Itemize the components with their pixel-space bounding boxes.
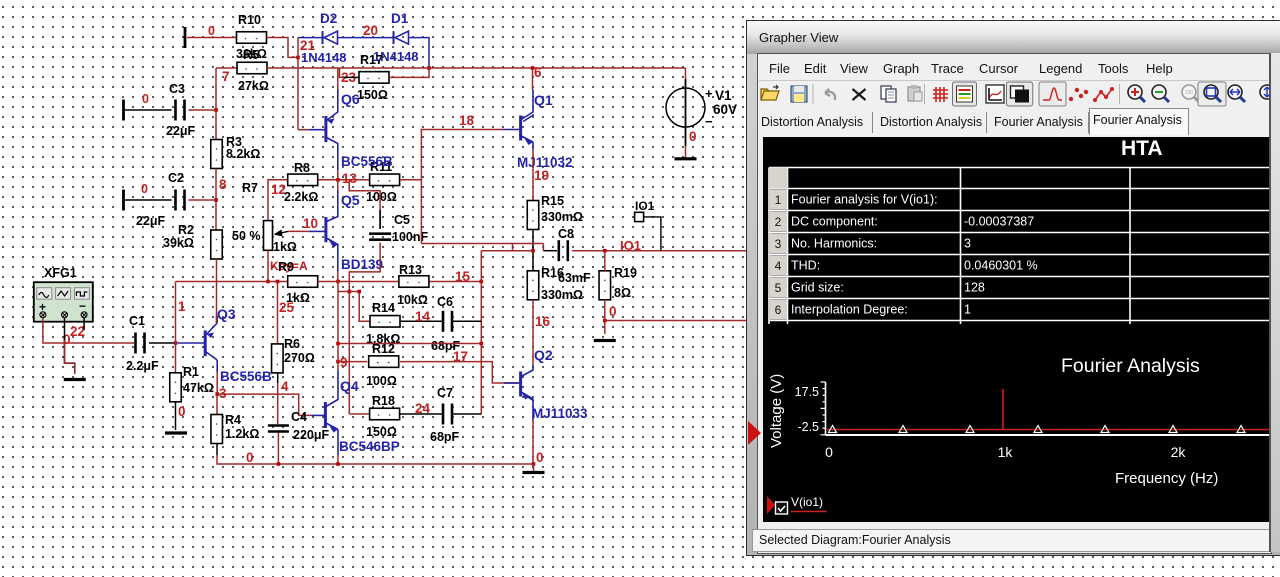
results table and chart [763,137,1269,522]
wire to R18 [349,413,369,415]
svg-text:22μF: 22μF [136,214,166,228]
svg-text:1: 1 [775,193,782,207]
resistor R8 [288,174,318,186]
node R6 top junction [276,280,280,284]
svg-text:270Ω: 270Ω [284,351,315,365]
svg-text:24: 24 [415,401,431,416]
svg-text:R10: R10 [238,13,261,27]
wire C2 left lead [125,199,172,201]
wire net 18 [400,130,503,180]
wire Q4 emitter to 0 [337,455,339,464]
svg-text:XFG1: XFG1 [44,266,77,280]
transistor Q5 [309,190,338,272]
svg-text:0: 0 [178,404,186,419]
svg-text:330mΩ: 330mΩ [541,210,583,224]
terminal C3 input [122,100,125,121]
svg-text:R4: R4 [225,413,241,427]
svg-text:C8: C8 [558,227,574,241]
wire vertical net col [337,282,339,362]
wire D1 to rail [409,38,429,68]
svg-text:7: 7 [222,69,230,84]
svg-text:R15: R15 [541,194,564,208]
wire net0 to window edge [605,320,746,322]
svg-text:1N4148: 1N4148 [301,50,347,65]
svg-text:IO1: IO1 [620,238,641,253]
svg-text:19: 19 [534,168,549,183]
node net 9 junction [336,360,340,364]
svg-text:R18: R18 [372,394,395,408]
node Q1 collector junction [531,66,535,70]
svg-text:C4: C4 [291,410,307,424]
wire R14 to C6 [400,320,442,322]
wire junction to R1 [175,343,177,373]
wire input to R10 [187,37,237,39]
node R19 top junction [603,249,607,253]
wire R10 to net21 [267,38,299,58]
transistor Q6 [309,89,338,171]
svg-text:THD:: THD: [791,259,820,273]
resistor R3 [211,140,223,169]
svg-text:3: 3 [964,237,971,251]
wire net io1 left [481,250,533,252]
wire C8 to window edge [572,250,746,252]
svg-text:0: 0 [246,450,254,465]
wire C5 bottom to R18 row [349,243,380,415]
svg-text:R9: R9 [278,260,294,274]
svg-text:25: 25 [279,300,295,315]
svg-text:1k: 1k [998,444,1014,460]
wire net1 to R6 [277,282,279,345]
wire net9 to Q4 collector [337,362,339,370]
wire R2 to Q3 emitter [216,316,218,323]
svg-text:150Ω: 150Ω [357,88,388,102]
wire V1 to ground [685,146,687,158]
svg-text:1kΩ: 1kΩ [273,240,297,254]
svg-text:22: 22 [70,324,85,339]
svg-text:Q5: Q5 [341,192,360,208]
wire D2 to D1 [338,37,394,39]
svg-text:BD139: BD139 [341,257,383,272]
svg-text:-2.5: -2.5 [797,420,819,434]
svg-text:Q2: Q2 [534,347,553,363]
svg-text:V(io1): V(io1) [791,495,823,509]
wire to R14 [338,292,370,322]
status bar [752,529,1280,552]
wire net 21 vertical [297,38,299,130]
wire R15 to R16 lead [532,230,534,272]
capacitor C3 [176,100,185,121]
wire R19 to ground [604,300,606,334]
resistor R4 [211,415,223,444]
wire R6-C4 red part [277,383,279,424]
svg-text:39kΩ: 39kΩ [163,236,194,250]
wire rail to Q1 collector [532,68,534,90]
svg-text:−: − [705,114,713,129]
svg-text:8.2kΩ: 8.2kΩ [226,147,260,161]
svg-text:R2: R2 [178,223,194,237]
node C5-R14 junction [348,290,352,294]
capacitor C4 [268,426,289,432]
node C3 junction [214,108,218,112]
node Q5 emitter junction [336,280,340,284]
wire jog right [542,244,544,251]
svg-text:18: 18 [459,113,475,128]
wire net3 to R4 [216,394,218,414]
svg-text:6: 6 [534,65,542,80]
svg-text:C5: C5 [394,213,410,227]
svg-text:3: 3 [775,237,782,251]
svg-text:−: − [79,299,86,313]
svg-text:BC556B: BC556B [341,154,393,169]
node col junction 17 [336,342,340,346]
wire Q5 emitter to net1 [337,272,339,282]
resistor R9 [288,276,318,288]
transistor Q3 [178,316,218,372]
svg-text:R14: R14 [372,301,395,315]
wire net21 to Q6 base [298,129,310,131]
svg-text:+: + [705,86,713,101]
wire to ground bottom [533,464,535,471]
svg-text:Interpolation Degree:: Interpolation Degree: [791,303,908,317]
svg-text:Q3: Q3 [217,306,236,322]
wire R18 to C7 [400,413,442,415]
svg-text:10: 10 [303,216,318,231]
transistor Q1 [503,90,534,150]
svg-text:Q6: Q6 [341,91,360,107]
active trace pointer [747,419,763,447]
resistor R13 [399,276,429,288]
svg-text:10kΩ: 10kΩ [397,293,428,307]
wire C3 left lead [125,109,172,111]
svg-text:R5: R5 [243,48,259,62]
capacitor C2 [176,190,185,211]
transistor Q2 [504,365,534,420]
voltage source V1 [666,79,713,146]
wire wiper to Q5 base [288,230,309,232]
svg-text:R17: R17 [360,53,383,67]
function generator XFG1 [34,282,93,322]
svg-text:22μF: 22μF [166,124,196,138]
wire rail net 6 [216,67,237,69]
svg-text:0: 0 [689,129,697,144]
svg-text:R12: R12 [372,342,395,356]
node Q4 emitter junction [336,462,340,466]
ground V1 [675,157,697,160]
capacitor C5 [369,234,391,240]
node 21 junction [296,56,300,60]
svg-text:27kΩ: 27kΩ [238,79,269,93]
diode D2 [323,31,338,44]
wire rail to R17 [340,68,345,77]
menu bar [769,61,790,76]
svg-text:68pF: 68pF [430,430,460,444]
svg-text:100Ω: 100Ω [366,374,397,388]
capacitor C8 [559,240,568,261]
svg-text:8: 8 [219,177,227,192]
wire rail to Q6 emitter [337,68,339,89]
svg-text:Grid size:: Grid size: [791,281,844,295]
ground bottom [523,471,545,474]
svg-text:MJ11033: MJ11033 [532,406,588,421]
wire R12 to Q2 base [400,362,519,383]
transistor Q4 [312,370,338,455]
svg-text:60V: 60V [713,102,737,117]
svg-text:0: 0 [141,182,148,196]
svg-text:5: 5 [775,281,782,295]
svg-text:C6: C6 [437,295,453,309]
svg-text:IO1: IO1 [635,199,655,213]
wire C2 to net7 [189,199,217,201]
wire R17 to rail [389,68,429,77]
resistor R16 [527,271,539,300]
wire R2 to Q3 [216,259,218,323]
svg-text:No. Harmonics:: No. Harmonics: [791,237,877,251]
svg-text:2: 2 [775,215,782,229]
svg-text:100: 100 [1185,90,1194,96]
node net 15 junction [480,280,484,284]
wire R13 to net15 [430,281,482,283]
resistor R14 [370,316,400,328]
svg-text:C3: C3 [169,82,185,96]
node rail-D1 junction [427,66,431,70]
svg-text:R6: R6 [284,337,300,351]
svg-text:Fourier Analysis: Fourier Analysis [1061,355,1200,377]
connector IO1 [635,212,661,250]
wire pot to net1 row [267,250,269,281]
svg-text:Q4: Q4 [340,378,359,394]
svg-text:0.0460301 %: 0.0460301 % [964,259,1038,273]
resistor R11 [370,174,400,186]
svg-text:220μF: 220μF [293,428,330,442]
tab bar [758,109,1270,135]
node net 13 junction [336,178,340,182]
resistor R10 [237,32,267,44]
node net 3 junction [215,392,219,396]
svg-text:1: 1 [178,299,186,314]
wire C6 right lead [453,320,481,322]
svg-text:C7: C7 [437,386,453,400]
svg-text:16: 16 [535,314,551,329]
wire net 4 to Q4 base [217,394,312,415]
wire Q3 collector to net3 [216,372,218,394]
resistor R1 [170,373,182,402]
wire net15 vertical [480,251,482,414]
resistor R12 [369,356,399,368]
svg-text:R13: R13 [399,263,422,277]
wire net 1 vertical [175,282,177,344]
wire R6 to C4 [277,373,279,383]
svg-text:R8: R8 [294,161,310,175]
svg-text:BC546BP: BC546BP [339,439,400,454]
svg-text:0: 0 [536,450,544,465]
potentiometer R7 [264,221,289,251]
ground R1 [165,431,187,434]
svg-text:R19: R19 [614,266,637,280]
svg-text:14: 14 [415,309,431,324]
svg-text:6: 6 [775,303,782,317]
svg-text:15: 15 [455,269,471,284]
wire 0 rail bottom [217,455,534,464]
node output junction [531,249,535,253]
svg-text:8Ω: 8Ω [614,286,631,300]
wire net 17 row [338,343,481,345]
wire C8 left lead [543,250,557,252]
ground R19 [594,339,616,342]
ground XFG [64,378,86,381]
terminal input top [184,27,187,48]
svg-text:Q1: Q1 [534,92,553,108]
capacitor C7 [443,404,452,425]
wire C4 to 0 rail [277,433,279,465]
svg-text:9: 9 [340,355,348,370]
wire R8 to R11 [318,179,369,181]
svg-text:2.2μF: 2.2μF [126,359,159,373]
black panel contents [763,137,1269,522]
wire net 1 row left [176,281,288,283]
svg-text:150Ω: 150Ω [366,425,397,439]
resistor R15 [527,201,539,230]
svg-text:63mF: 63mF [558,271,591,285]
toolbar [758,81,1270,108]
wire R3 to R2 [215,169,217,231]
wire C3 to net7 [189,109,217,111]
node bottom right junction [532,462,536,466]
svg-text:R7: R7 [242,181,258,195]
node net17 junction [480,342,484,346]
wire to D2 [298,37,323,39]
svg-text:1.2kΩ: 1.2kΩ [225,427,259,441]
wire C7 right lead [453,413,481,415]
svg-text:330mΩ: 330mΩ [541,288,583,302]
resistor R18 [370,408,400,420]
resistor R6 [272,344,284,373]
wire R16 to Q2 collector [532,300,534,365]
svg-text:V1: V1 [715,88,732,103]
wire jog left [512,244,514,251]
resistor R19 [599,271,611,300]
resistor R17 [359,72,389,84]
capacitor C1 [136,333,145,354]
window right frame [1269,53,1271,552]
svg-text:0: 0 [208,24,215,38]
svg-text:2.2kΩ: 2.2kΩ [284,190,318,204]
wire XFG common to ground [65,318,75,374]
svg-text:Fourier analysis for V(io1):: Fourier analysis for V(io1): [791,193,938,207]
resistor R2 [211,230,223,259]
node net 1 junction [174,341,178,345]
capacitor C6 [443,311,452,332]
svg-text:BC556B: BC556B [220,369,272,384]
wire R8 to pot [268,180,287,221]
resistor R5 [237,62,267,74]
wire Q6 collector to net13 [337,170,339,180]
svg-text:DC component:: DC component: [791,215,878,229]
svg-text:Voltage (V): Voltage (V) [768,374,785,448]
wire XFG minus stub [83,318,85,330]
node R14 junction [357,290,361,294]
wire Q1 emitter to R15 [532,149,534,201]
svg-text:4: 4 [775,259,782,273]
svg-text:100nF: 100nF [392,230,428,244]
svg-text:100Ω: 100Ω [366,190,397,204]
wire net1 row mid [318,281,398,283]
svg-text:0: 0 [142,92,149,106]
svg-text:1: 1 [964,303,971,317]
svg-text:-0.00037387: -0.00037387 [964,215,1034,229]
svg-text:17.5: 17.5 [795,385,819,399]
wire feedback to C8 [421,243,543,245]
node C2 junction [214,198,218,202]
wire R1 to ground [175,402,177,430]
svg-text:128: 128 [964,281,985,295]
wire net9 to R12 [338,361,367,363]
svg-text:R1: R1 [183,365,199,379]
wire net 7 vertical [215,68,217,140]
svg-text:47kΩ: 47kΩ [183,381,214,395]
svg-text:4: 4 [281,379,289,394]
svg-text:Frequency (Hz): Frequency (Hz) [1115,470,1218,487]
wire rail to V1 [267,67,686,69]
svg-text:0: 0 [825,444,833,460]
terminal C2 input [122,190,125,211]
svg-text:2k: 2k [1171,444,1187,460]
wire net18 vertical to C8 row [420,180,422,244]
svg-text:C1: C1 [129,314,145,328]
svg-text:D1: D1 [391,11,409,26]
wire net13 to C5 [349,180,380,228]
node net 0 out junction [603,319,607,323]
diode D1 [394,31,409,44]
wire XFG plus to C1 [43,318,134,343]
svg-text:20: 20 [363,23,378,38]
svg-text:C2: C2 [168,171,184,185]
wire Q2 emitter to 0 rail [532,420,534,464]
svg-text:D2: D2 [320,11,337,26]
wire net13 to Q5 collector [337,180,339,191]
node pot bottom junction [266,280,270,284]
wire C1 right lead [149,342,176,344]
svg-text:50 %: 50 % [232,229,261,243]
wire R4 to 0 rail [216,444,218,456]
wire junction to R19 [604,251,606,271]
wire rail to V1 [685,68,687,79]
svg-text:0: 0 [609,304,617,319]
node C4 bottom junction [277,462,281,466]
